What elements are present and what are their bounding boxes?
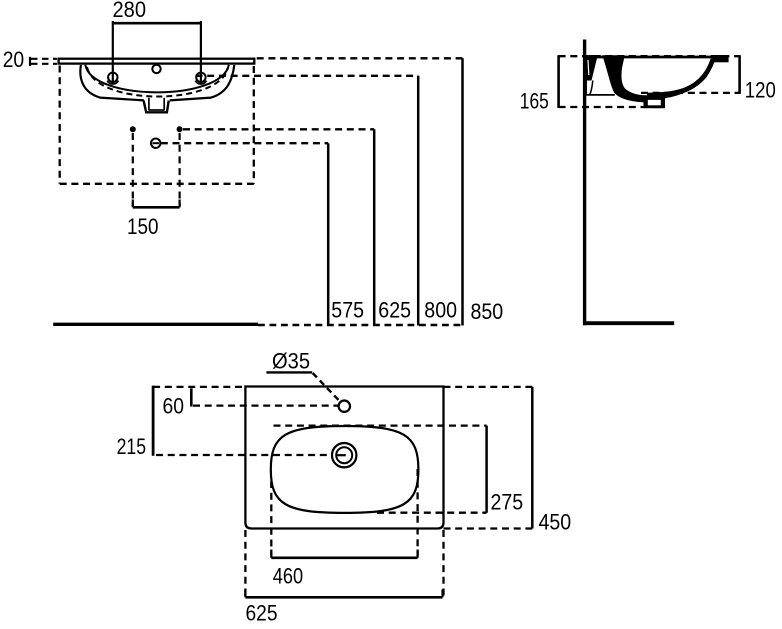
basin funnel filled section (side view) bbox=[602, 55, 646, 102]
height 800 vertical bbox=[417, 76, 420, 326]
dimension 20 dashed extension top bbox=[31, 58, 57, 60]
dashed extension top-left bbox=[153, 386, 245, 388]
dimension 625 dashed extension right bbox=[442, 530, 444, 596]
dash inside drain (top view) bbox=[337, 454, 346, 456]
drain box filled (side view) bbox=[644, 95, 666, 108]
height 575 vertical bbox=[327, 143, 330, 325]
dimension 165 bottom dashed line bbox=[559, 106, 663, 108]
dimension 460 dashed extension left bbox=[270, 481, 272, 556]
dimension 275 top dashed bbox=[274, 424, 487, 426]
svg-text:Ø35: Ø35 bbox=[272, 348, 310, 373]
basin body outline left (front view) bbox=[80, 65, 144, 100]
dashed outline rectangle: right edge bbox=[253, 66, 255, 184]
mounting bolt right (filled dot) bbox=[177, 126, 183, 132]
dimension 120 bracket vertical bbox=[738, 55, 741, 94]
svg-text:800: 800 bbox=[424, 298, 457, 323]
height 850 dashed horizontal bbox=[257, 57, 463, 59]
back wall thin outline right bbox=[590, 81, 593, 95]
faucet hole (top view) bbox=[339, 401, 350, 412]
dimension 450 bracket vertical bbox=[531, 387, 534, 529]
dashed outline rectangle around front view: left edge bbox=[59, 66, 61, 184]
height 850 vertical bbox=[461, 58, 464, 325]
mounting bolt left (filled dot) bbox=[130, 126, 136, 132]
bowl outline (top view) bbox=[271, 426, 419, 513]
worktop outline (top view) bbox=[245, 387, 443, 529]
dimension 20 dashed extension bottom bbox=[31, 63, 57, 65]
dimension 165 bracket vertical bbox=[557, 55, 560, 108]
svg-text:850: 850 bbox=[471, 299, 504, 324]
height 800 dashed horizontal bbox=[196, 75, 419, 77]
dimension 150 dashed extension right bbox=[179, 133, 181, 206]
drain box inner right wall bbox=[163, 98, 165, 111]
svg-text:60: 60 bbox=[163, 394, 185, 419]
svg-text:450: 450 bbox=[539, 510, 572, 535]
dimension 460 tick left bbox=[270, 550, 272, 558]
basin body outline right (front view) bbox=[170, 65, 235, 100]
drain inner circle (top view) bbox=[336, 447, 352, 463]
height 625 vertical bbox=[373, 129, 376, 325]
left tap hole symbol bbox=[107, 73, 118, 84]
drain outer circle (top view) bbox=[332, 443, 356, 467]
front rim block (side view) bbox=[712, 55, 728, 62]
height 575 dashed horizontal bbox=[161, 142, 328, 144]
dashed outline rectangle: bottom edge bbox=[60, 183, 254, 185]
svg-text:460: 460 bbox=[273, 564, 303, 589]
basin bottom step line (side view) bbox=[585, 94, 615, 96]
back wall white sliver bbox=[587, 60, 590, 75]
dimension 150 line bbox=[133, 206, 180, 209]
dimension 625 tick left bbox=[244, 590, 246, 598]
dashed extension bottom-right bbox=[444, 527, 533, 529]
dimension 165 top dashed line bbox=[559, 55, 740, 57]
dimension 460 tick right bbox=[417, 550, 419, 558]
floor line solid (front view) bbox=[53, 323, 258, 326]
svg-text:625: 625 bbox=[378, 298, 411, 323]
svg-text:215: 215 bbox=[117, 434, 146, 459]
height 625 dashed horizontal bbox=[183, 128, 374, 130]
dimension 20 tick bbox=[29, 57, 31, 66]
dimension 275 bracket vertical bbox=[485, 426, 488, 513]
basin hidden bowl dashed arc (front view) bbox=[87, 67, 228, 97]
dimension 215 bracket vertical bbox=[152, 386, 155, 456]
dimension 625 tick right bbox=[441, 590, 443, 598]
overflow hole (front view) bbox=[152, 65, 160, 73]
svg-text:165: 165 bbox=[520, 88, 549, 113]
drain box inner white bbox=[648, 100, 661, 105]
drain box inner left wall bbox=[148, 98, 150, 111]
dimension 460 line bbox=[271, 556, 417, 559]
dimension 280 line bbox=[113, 22, 201, 25]
dimension 60 tick bbox=[190, 388, 193, 406]
bowl inner thick curve (side view) bbox=[647, 59, 713, 95]
dimension 150 tick right bbox=[179, 200, 181, 208]
dimension 215 dashed line bbox=[156, 454, 332, 456]
dash inside drain circle bbox=[153, 142, 160, 144]
svg-text:280: 280 bbox=[113, 0, 147, 22]
diameter 35 dashed leader bbox=[313, 373, 340, 401]
wall line bbox=[583, 40, 586, 326]
basin top line (side view) bbox=[585, 56, 727, 59]
back wall thin outline left bbox=[585, 81, 587, 95]
washbasin rim (front view) bbox=[59, 59, 255, 64]
svg-text:575: 575 bbox=[331, 298, 364, 323]
dashed extension top-right bbox=[444, 386, 533, 388]
drain box inner bottom bbox=[149, 109, 164, 111]
basin back wall filled section (side view) bbox=[585, 55, 598, 81]
dimension 120 dashed line bbox=[641, 92, 740, 94]
dimension 150 tick left bbox=[132, 200, 134, 208]
drain pipe circle (front view) bbox=[151, 139, 160, 148]
floor line dashed continuation bbox=[258, 324, 464, 326]
dimension 150 dashed extension left bbox=[132, 133, 134, 206]
svg-text:625: 625 bbox=[246, 601, 278, 626]
dimension 625 line bbox=[245, 596, 442, 599]
basin inner rim arc (front view) bbox=[85, 65, 229, 93]
drain box (front view) bbox=[144, 101, 169, 113]
svg-text:120: 120 bbox=[745, 78, 776, 103]
dimension 460 dashed extension right bbox=[416, 469, 418, 556]
dimension 625 dashed extension left bbox=[244, 530, 246, 596]
dimension 280 right extension bbox=[200, 21, 202, 84]
right tap hole symbol bbox=[195, 73, 206, 84]
floor line (side view) bbox=[583, 321, 674, 325]
dimension 60 dashed line bbox=[193, 404, 338, 406]
diameter 35 underline bbox=[266, 371, 312, 373]
svg-text:150: 150 bbox=[127, 214, 159, 239]
dimension 280 left extension bbox=[112, 21, 114, 84]
dimension 275 bottom dashed bbox=[377, 512, 487, 514]
bowl outer thin curve (side view) bbox=[665, 63, 712, 98]
svg-text:20: 20 bbox=[3, 47, 25, 72]
svg-text:275: 275 bbox=[491, 490, 524, 515]
